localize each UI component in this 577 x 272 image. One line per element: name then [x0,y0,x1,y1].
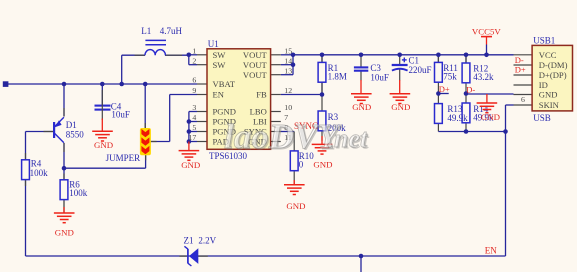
svg-text:Z1: Z1 [184,235,194,245]
svg-text:D-: D- [515,55,524,65]
svg-text:VOUT: VOUT [243,60,268,70]
svg-text:GND: GND [286,201,305,211]
svg-text:laoDVY: laoDVY [224,117,342,156]
svg-text:LBO: LBO [250,107,267,117]
svg-text:D1: D1 [66,120,77,130]
svg-text:USB1: USB1 [533,36,555,46]
svg-text:43.2k: 43.2k [473,72,494,82]
svg-text:PGND: PGND [213,107,236,117]
svg-text:D+: D+ [439,84,450,94]
svg-text:12: 12 [284,86,292,95]
svg-text:R4: R4 [31,158,42,168]
svg-text:6: 6 [521,95,525,104]
svg-text:6: 6 [192,76,196,85]
svg-text:3: 3 [192,103,196,112]
svg-text:75k: 75k [443,71,457,81]
svg-text:4.7uH: 4.7uH [160,26,183,36]
svg-text:EN: EN [213,90,225,100]
svg-text:D-(DM): D-(DM) [539,60,568,70]
svg-text:FB: FB [256,90,267,100]
svg-text:220uF: 220uF [409,65,432,75]
svg-text:GND: GND [181,160,200,170]
svg-text:D+(DP): D+(DP) [539,70,567,80]
svg-text:0: 0 [299,159,304,169]
svg-text:VOUT: VOUT [243,50,268,60]
svg-text:VBAT: VBAT [213,79,236,89]
svg-text:ID: ID [539,80,548,90]
svg-text:13: 13 [284,66,292,75]
svg-text:14: 14 [284,56,292,65]
svg-text:GND: GND [94,140,113,150]
svg-text:15: 15 [284,47,292,56]
svg-text:GND: GND [481,112,500,122]
svg-text:JUMPER: JUMPER [106,153,141,163]
svg-text:VCC5V: VCC5V [472,27,501,37]
svg-text:EN: EN [485,245,497,255]
svg-text:GND: GND [55,227,74,237]
svg-text:100k: 100k [30,168,48,178]
svg-text:.net: .net [328,124,369,153]
svg-text:5: 5 [192,123,196,132]
svg-text:GND: GND [352,102,371,112]
svg-text:1: 1 [192,47,196,56]
svg-text:10uF: 10uF [370,72,389,82]
svg-text:GND: GND [391,102,410,112]
svg-text:U1: U1 [208,39,219,49]
svg-text:10: 10 [284,103,292,112]
svg-text:4: 4 [192,113,196,122]
svg-text:2: 2 [192,56,196,65]
svg-text:2.2V: 2.2V [198,235,216,245]
svg-text:USB: USB [533,113,551,123]
svg-text:100k: 100k [69,188,88,198]
svg-text:49.9k: 49.9k [447,113,468,123]
svg-text:VCC: VCC [539,50,557,60]
svg-text:L1: L1 [141,26,151,36]
svg-text:9: 9 [192,86,196,95]
svg-text:SKIN: SKIN [539,100,560,110]
svg-text:D+: D+ [515,64,526,74]
svg-text:VOUT: VOUT [243,70,268,80]
svg-text:SW: SW [213,60,227,70]
svg-text:17: 17 [189,133,197,142]
svg-text:8550: 8550 [66,130,85,140]
svg-text:SW: SW [213,50,227,60]
svg-text:1.8M: 1.8M [328,72,347,82]
svg-text:10uF: 10uF [111,109,130,119]
svg-text:D-: D- [466,85,475,95]
svg-text:GND: GND [539,90,558,100]
svg-text:GND: GND [313,159,332,169]
